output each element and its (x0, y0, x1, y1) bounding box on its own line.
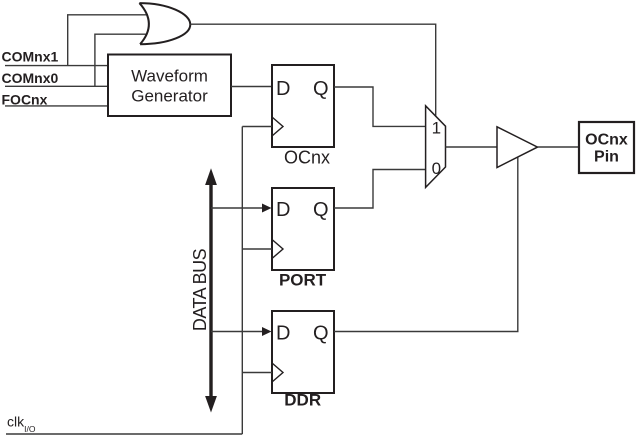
wire buffer output to pin (538, 146, 580, 148)
svg-text:Q: Q (313, 199, 329, 221)
svg-text:Q: Q (313, 322, 329, 344)
svg-text:Waveform: Waveform (131, 66, 208, 85)
wire data bus to DDR D (211, 327, 272, 336)
svg-text:Generator: Generator (131, 86, 208, 105)
svg-text:0: 0 (432, 159, 441, 178)
svg-text:COMnx0: COMnx0 (2, 70, 59, 86)
wire mux output (446, 146, 498, 148)
svg-text:clkI/O: clkI/O (7, 414, 36, 434)
svg-text:OCnx: OCnx (585, 132, 628, 149)
wire clk to DDR clock (242, 372, 272, 374)
OCnx Pin box (579, 122, 634, 173)
wire PORT Q to mux input 0 (334, 170, 426, 209)
flip-flop PORT U2 (272, 188, 334, 289)
wire FOCnx (5, 105, 108, 107)
svg-text:PORT: PORT (279, 270, 327, 289)
tri-state buffer (497, 127, 538, 168)
or-gate (139, 3, 190, 44)
svg-text:D: D (276, 199, 290, 221)
svg-text:DDR: DDR (284, 391, 321, 410)
wire clk to OCnx clock (242, 126, 272, 128)
svg-text:FOCnx: FOCnx (2, 91, 48, 107)
svg-text:COMnx1: COMnx1 (2, 49, 59, 65)
mux (426, 106, 446, 188)
wire clk riser (241, 127, 243, 435)
wire clk to PORT clock (242, 248, 272, 250)
wire OR gate input 2 from COMnx0 (95, 34, 147, 86)
svg-text:D: D (276, 78, 290, 100)
svg-text:D: D (276, 322, 290, 344)
wire DDR Q to buffer enable (334, 157, 518, 332)
svg-text:1: 1 (432, 119, 441, 138)
svg-text:Pin: Pin (594, 149, 619, 166)
svg-text:OCnx: OCnx (284, 147, 330, 167)
wire data bus to PORT D (211, 204, 272, 213)
flip-flop DDR U3 (272, 311, 334, 410)
wire waveform generator output to OCnx D (231, 86, 272, 88)
wire OR gate input 1 from COMnx1 (68, 15, 148, 66)
wire OCnx Q to mux input 1 (334, 87, 426, 126)
svg-text:DATA BUS: DATA BUS (190, 248, 210, 331)
wire clk_I/O (6, 433, 242, 435)
waveform generator box (108, 55, 231, 117)
wire OR output to mux select (190, 24, 435, 116)
wire COMnx1 (5, 65, 108, 67)
svg-text:Q: Q (313, 78, 329, 100)
data bus arrow (205, 168, 217, 412)
flip-flop OCnx U1 (272, 65, 334, 167)
wire COMnx0 (5, 85, 108, 87)
